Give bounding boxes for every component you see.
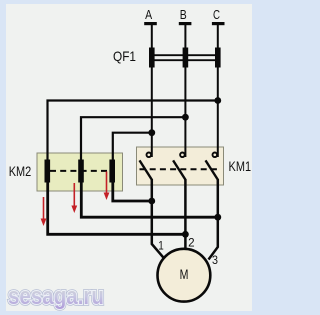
- KM2 pole 1 closed contact bar: [45, 160, 51, 183]
- wire phase C: QF1 to KM1 contact: [217, 68, 219, 158]
- wire B terminal to QF1: [184, 25, 186, 48]
- contactor KM1 body: [137, 147, 224, 185]
- breaker QF1 tie bars (double line): [149, 54, 221, 56]
- terminal bar phase B: [179, 22, 192, 25]
- wire phase A: QF1 to KM1 contact: [151, 68, 153, 158]
- current flow arrow 2 (red): [71, 183, 77, 213]
- breaker QF1 pole C: [215, 48, 221, 68]
- wire: KM2 pole1 bottom to motor line 2: [48, 183, 186, 235]
- svg-text:KM2: KM2: [9, 163, 32, 179]
- svg-text:sesaga.ru: sesaga.ru: [8, 283, 104, 310]
- svg-text:1: 1: [158, 239, 164, 253]
- terminal bar phase C: [212, 22, 225, 25]
- wire: KM2 pole2 bottom to motor line 3: [81, 183, 218, 218]
- junction node on motor line 3: [214, 214, 221, 221]
- KM1 pole 3 blade (open): [206, 160, 218, 179]
- svg-text:B: B: [180, 7, 187, 22]
- drawing area background: [6, 4, 252, 311]
- KM1 dashed actuator line: [140, 168, 221, 170]
- svg-text:M: M: [180, 266, 189, 282]
- breaker QF1 pole B: [183, 48, 189, 68]
- breaker QF1 pole A: [149, 48, 155, 68]
- current flow arrow 1 (red): [41, 197, 47, 226]
- svg-text:QF1: QF1: [113, 48, 136, 64]
- motor M circle: [158, 249, 211, 302]
- wire motor line 1: KM1 pole1 to motor terminal 1: [152, 179, 167, 262]
- KM1 pole 2 fixed contact circle: [180, 153, 185, 158]
- svg-text:KM1: KM1: [229, 158, 252, 174]
- current flow arrow 3 (red): [104, 172, 110, 201]
- svg-text:C: C: [213, 7, 220, 22]
- terminal bar phase A: [144, 22, 157, 25]
- wire motor line 2: KM1 pole2 to motor terminal 2: [184, 179, 187, 250]
- svg-text:2: 2: [188, 235, 195, 249]
- wire: phase A tap to KM2 pole 3 (inner L): [113, 133, 152, 160]
- wire: phase B tap to KM2 pole 2 (middle L): [81, 117, 185, 160]
- wire phase B: QF1 to KM1 contact: [184, 68, 186, 158]
- junction node on motor line 2: [182, 231, 189, 238]
- watermark sesaga.ru: [8, 283, 104, 310]
- junction node phase A tap: [148, 129, 155, 136]
- KM1 pole 3 fixed contact circle: [213, 153, 218, 158]
- svg-text:3: 3: [212, 253, 218, 267]
- junction node phase B tap: [182, 114, 189, 121]
- KM1 pole 1 fixed contact circle: [147, 153, 152, 158]
- KM2 pole 3 closed contact bar: [109, 160, 115, 183]
- KM2 pole 2 closed contact bar: [78, 160, 84, 183]
- wire: phase C tap to KM2 pole 1 (upper L): [48, 101, 218, 161]
- KM1 pole 1 blade (open): [140, 160, 152, 179]
- wire A terminal to QF1: [151, 25, 153, 48]
- junction node phase C tap: [214, 97, 221, 104]
- svg-text:A: A: [145, 7, 152, 22]
- KM1 pole 2 blade (open): [173, 160, 185, 179]
- junction node on motor line 1: [148, 198, 155, 205]
- wire: KM2 pole3 bottom to motor line 1: [113, 183, 152, 202]
- wire motor line 3: KM1 pole3 to motor terminal 3: [209, 179, 218, 260]
- KM2 dashed actuator line: [50, 170, 110, 172]
- wire C terminal to QF1: [217, 25, 219, 48]
- contactor KM2 body: [37, 153, 123, 191]
